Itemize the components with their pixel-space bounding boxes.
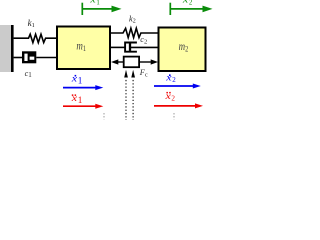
spring k1 [14, 34, 57, 42]
svg-text:2: 2 [172, 76, 176, 84]
coordinate arrow x2 (green) [170, 3, 212, 15]
mass m2 [159, 28, 206, 72]
svg-text:1: 1 [96, 0, 99, 6]
faint dotted reference line below x2 arrows [173, 113, 175, 119]
svg-text:x: x [165, 72, 172, 82]
reaction force arrow (dotted, up) at m1 side [124, 70, 128, 120]
spring k2 [111, 28, 159, 37]
mass m1 [57, 27, 110, 70]
damper c1 [14, 51, 57, 63]
label m2 [179, 41, 189, 53]
velocity arrow x2dot (blue) [154, 84, 201, 89]
acceleration arrow x1ddot (red) [63, 104, 103, 109]
velocity arrow x1dot (blue) [63, 85, 103, 90]
wall (fixed support, left) [0, 25, 14, 72]
svg-text:1: 1 [78, 76, 83, 86]
svg-text:c2: c2 [140, 35, 147, 45]
faint dotted reference line below x1 arrows [103, 113, 105, 119]
svg-text:x: x [89, 0, 96, 5]
svg-text:k2: k2 [129, 14, 136, 24]
damper c2 [111, 43, 159, 52]
reaction force arrow (dotted, up) at m2 side [131, 70, 135, 120]
svg-text:x: x [71, 93, 78, 103]
label m1 [76, 41, 86, 53]
svg-text:2: 2 [189, 0, 193, 6]
acceleration arrow x2ddot (red) [154, 103, 203, 108]
coordinate arrow x1 (green) [82, 3, 121, 15]
svg-text:x: x [71, 74, 78, 84]
svg-text:2: 2 [171, 95, 175, 103]
svg-text:1: 1 [78, 95, 83, 105]
svg-text:x: x [182, 0, 189, 5]
svg-text:c1: c1 [25, 69, 33, 79]
force actuator Fc between m1 and m2 [111, 57, 158, 68]
svg-text:Fc: Fc [139, 68, 148, 78]
svg-text:k1: k1 [28, 18, 35, 29]
